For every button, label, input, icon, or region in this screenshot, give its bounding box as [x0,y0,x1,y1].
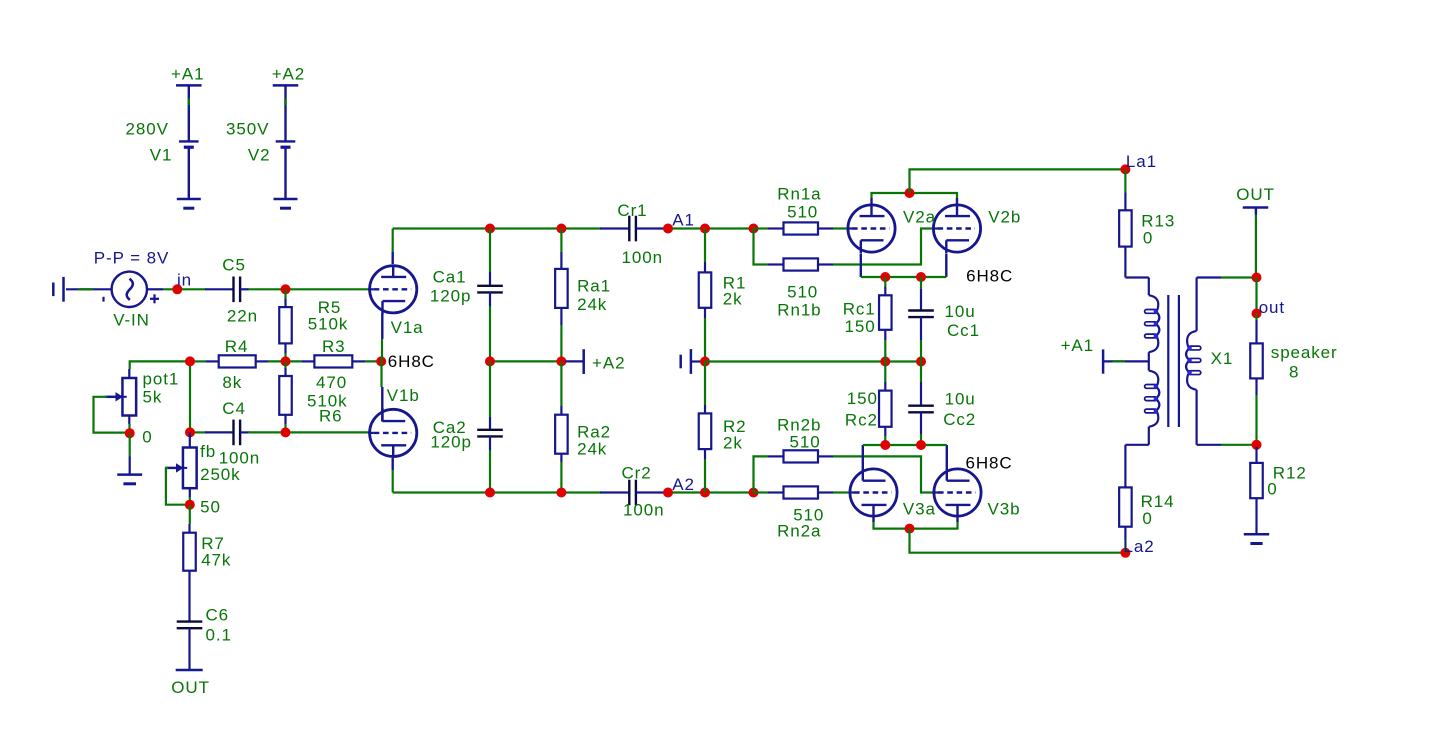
V3b plate lead [956,517,958,522]
triode V2a [846,204,895,254]
V2a plate lead [870,198,872,204]
svg-text:8: 8 [1289,362,1299,381]
source V-IN circle [112,272,147,307]
wire Ca2 to bottom rail [489,450,491,493]
wire A1 to R1 [704,229,706,263]
resistor R6 [279,368,292,424]
svg-text:V3a: V3a [903,500,936,519]
V1b plate lead down [392,458,394,470]
wire 0 to ground [129,433,131,456]
wire Cc2 to cath rail [920,434,922,445]
wire Rn2 junction to Rn2a [754,491,769,493]
pot1 top lead [128,369,130,378]
wire V2 plates join [872,193,958,198]
wire V3 plates join [874,522,958,529]
wire pot1 wiper [94,397,128,433]
capacitor Cc2 [908,382,934,434]
junction Cc1 top [916,272,926,282]
capacitor Ca1 [477,272,503,306]
terminal OUT top [1243,206,1269,209]
resistor R14 [1119,487,1132,540]
triode V1b [368,408,417,458]
wire mid row R4 run [190,360,206,362]
svg-text:La2: La2 [1124,537,1155,556]
wire secondary top [1195,278,1197,331]
wire Cc1 top stub [920,277,922,289]
svg-text:6H8C: 6H8C [966,454,1013,473]
wire Cc2 from mid [920,362,922,383]
wire Ca1 column top [489,229,491,273]
wire Rn1b to V2b grid [833,229,932,265]
svg-text:+A1: +A1 [171,65,204,84]
svg-text:Cr2: Cr2 [622,464,652,483]
ground terminal mid [681,349,691,374]
svg-text:speaker: speaker [1271,343,1338,362]
capacitor Ca2 [477,417,503,450]
svg-text:R3: R3 [322,337,346,356]
wire source to in node [147,288,163,290]
junction A2 [663,488,673,498]
svg-text:V1a: V1a [391,318,424,337]
resistor R4 [206,355,268,367]
wire Rc1 top stub [884,277,886,287]
resistor Rn2a [768,486,833,498]
svg-text:24k: 24k [577,440,607,459]
junction sec top [1252,273,1262,283]
ground under R12 [1244,498,1269,543]
svg-text:2k: 2k [723,433,743,452]
V2b cathode lead down [945,254,947,277]
junction C5/R5 [281,284,291,294]
wire OUT to out node [1255,215,1257,278]
triode V1a [368,265,417,315]
wire node to R5 [284,289,286,299]
svg-text:P-P = 8V: P-P = 8V [94,249,169,268]
capacitor Cr1 [600,216,667,242]
terminal OUT bottom [176,669,203,672]
potentiometer pot1 [105,378,136,416]
svg-text:50: 50 [200,498,221,517]
wire Rc1 to mid [884,340,886,362]
svg-text:+A2: +A2 [272,65,305,84]
input terminal [53,277,63,302]
svg-text:V3b: V3b [988,500,1021,519]
svg-text:R4: R4 [225,337,249,356]
resistor Rn1a [768,222,833,234]
junction R4/R5/R6 [281,356,291,366]
wire R4 to node [268,360,302,362]
triode V2b [932,204,981,254]
triode V3a [848,468,897,518]
svg-text:22n: 22n [227,306,258,325]
wire Rn2 junction up [754,456,769,492]
junction Rc1 mid [880,357,890,367]
capacitor Cr2 [600,480,667,506]
svg-text:0: 0 [1143,229,1153,248]
junction R4 left [185,356,195,366]
ground under V1 [177,199,201,208]
resistor R1 [699,262,712,318]
capacitor Cc1 [908,289,934,340]
resistor Ra1 [555,252,568,325]
junction Cc2 bottom [916,440,926,450]
wire Cr2 to A2 [666,491,754,493]
wire fb wiper [166,468,187,505]
wire Rc2 from mid [884,362,886,383]
wire Rc2 to cath rail [884,436,886,445]
svg-text:120p: 120p [430,286,471,305]
svg-text:280V: 280V [126,119,169,138]
V2a cathode lead down [860,254,862,277]
wire Rn2a to V3a grid [833,491,848,493]
wire V2 cathode rail [861,276,947,278]
junction sec bottom [1252,440,1262,450]
ground under V2 [274,199,298,208]
terminal +A2 top [273,84,299,87]
wire speaker to bottom node [1255,395,1257,445]
V3b cathode lead up [946,445,948,468]
wire sec bottom to node [1221,444,1257,446]
svg-text:Ra1: Ra1 [577,277,611,296]
wire V1b plate to bottom rail [392,470,394,493]
svg-text:24k: 24k [577,295,607,314]
junction node 0 [125,428,135,438]
svg-text:0.1: 0.1 [206,625,232,644]
transformer X1 secondary [1186,331,1201,390]
wire fb to 50 [189,497,191,505]
resistor R2 [699,405,712,459]
resistor Rn2b [768,450,833,462]
wire V1a cathode down [381,339,383,361]
wire sec top to node [1221,276,1257,278]
svg-text:V1: V1 [150,145,173,164]
svg-text:510: 510 [790,433,821,452]
svg-text:Rn2a: Rn2a [777,522,821,541]
svg-text:V1b: V1b [387,386,420,405]
potentiometer fb 250k [166,448,197,489]
wire gnd rail right [705,360,921,362]
svg-text:C4: C4 [222,399,246,418]
wire Ra2 column top [560,361,562,406]
svg-text:Rc2: Rc2 [845,411,878,430]
wire R5 to mid node [284,353,286,361]
terminal +A2 mid [582,349,585,374]
junction Ra1 top [556,224,566,234]
resistor Rn1b [768,258,833,270]
svg-text:Rn1a: Rn1a [777,185,821,204]
pot1 bottom lead [128,416,130,425]
terminal +A1 [176,84,202,87]
wire 50 to R7 [189,505,191,524]
wire R13 to primary [1124,258,1126,278]
capacitor C6 [177,575,203,670]
wire V3 plates to La2 [910,529,1126,553]
svg-text:0: 0 [1267,479,1277,498]
svg-text:Cc2: Cc2 [943,410,976,429]
V2b plate lead [956,198,958,204]
junction Rn top [749,224,759,234]
capacitor C5 [205,277,249,303]
svg-text:A2: A2 [672,475,695,494]
resistor Ra2 [555,406,568,462]
wire V1a plate to top rail [392,229,394,253]
V1b cathode lead [381,387,383,422]
junction node 50 [185,500,195,510]
svg-text:47k: 47k [201,550,231,569]
wire Rn junction to Rn1a [754,227,769,229]
wire R3 to 6H8C node [365,360,381,362]
svg-text:V2b: V2b [988,208,1021,227]
junction V3 plates [905,524,915,534]
V3a cathode lead up [862,445,864,468]
svg-text:C5: C5 [222,255,246,274]
resistor speaker [1250,320,1263,395]
wire bottom rail [393,491,601,493]
wire mid to R6 [284,361,286,368]
triode V3b [932,468,981,518]
resistor Rc2 [879,382,892,436]
svg-text:pot1: pot1 [143,369,180,388]
fb pot top lead [189,432,191,447]
svg-text:Ca1: Ca1 [433,267,467,286]
junction 6H8C node [376,356,386,366]
resistor R3 [302,355,365,367]
svg-text:120p: 120p [430,433,471,452]
svg-text:V-IN: V-IN [113,310,150,329]
svg-text:470: 470 [316,373,347,392]
resistor R5 [279,299,292,353]
capacitor C4 [205,420,249,446]
junction C4/R6 [281,427,291,437]
svg-text:6H8C: 6H8C [388,352,435,371]
wire pot1 bottom to 0 [128,424,130,433]
wire node to pot1 top [130,361,190,369]
svg-text:+A1: +A1 [1061,336,1094,355]
wire input to source [66,288,112,290]
minus mark [102,297,104,302]
wire R1 to gnd node [704,318,706,362]
junction Ca2 bottom [485,488,495,498]
junction R2 bottom [700,488,710,498]
fb pot bottom lead [189,488,191,497]
wire Rn1a to V2a grid [833,227,846,229]
svg-text:+A2: +A2 [592,354,625,373]
junction out [1252,309,1262,319]
wire term to node [692,360,705,362]
wire Ra1 to mid [560,325,562,361]
transformer X1 core [1167,295,1169,427]
svg-text:C6: C6 [206,606,230,625]
wire Ra1 column top [560,229,562,253]
wire V2 plates to La1 [910,169,1126,193]
wire Ra2 to bottom rail [560,462,562,493]
svg-text:OUT: OUT [171,678,210,697]
svg-text:2k: 2k [723,289,743,308]
wire center tap [1103,360,1149,362]
wire V3 cathode rail [863,444,947,446]
junction Ca1 top [485,224,495,234]
wire Rn junction down [754,229,769,265]
svg-text:OUT: OUT [1236,185,1275,204]
wire node to C4 [190,431,206,433]
junction C4 left [185,427,195,437]
transformer X1 primary lower [1145,371,1160,427]
wire Ca2 column top [489,361,491,417]
junction R1 top [700,224,710,234]
svg-text:510: 510 [787,283,818,302]
wire mid rail left [490,360,566,362]
junction La2 [1120,548,1130,558]
svg-text:V2a: V2a [903,208,936,227]
svg-text:150: 150 [845,317,876,336]
wire to +A2 terminal [565,360,584,362]
battery V1 [179,85,199,199]
wire node to out [1255,278,1257,314]
svg-text:8k: 8k [222,373,242,392]
wire Ca1 to mid [489,306,491,361]
transformer X1 primary upper [1145,295,1160,352]
svg-text:Rn1b: Rn1b [777,301,821,320]
wire Cr1 to A1 [666,227,754,229]
resistor R12 [1250,447,1263,498]
svg-text:V2: V2 [248,145,271,164]
junction Ra1 mid [556,356,566,366]
wire C5 to V1a grid [248,288,370,290]
junction V2 plates [905,188,915,198]
svg-text:350V: 350V [226,119,269,138]
wire Rn2b to V3b grid [833,456,934,492]
wire R6 to C4 row [284,424,286,432]
svg-text:510: 510 [787,203,818,222]
svg-text:out: out [1259,298,1285,317]
wire top rail [393,227,601,229]
svg-text:100n: 100n [623,501,664,520]
svg-text:R6: R6 [319,407,343,426]
junction Rc1 top [880,272,890,282]
svg-text:0: 0 [1142,509,1152,528]
wire C4 to V1b grid [248,431,370,433]
svg-text:10u: 10u [945,302,976,321]
wire La1 down [1124,169,1126,192]
wire out to speaker [1255,314,1257,321]
junction Cc1 mid [916,357,926,367]
resistor R7 [183,524,196,575]
junction Rc2 bottom [880,440,890,450]
wire primary bottom [1148,427,1150,445]
svg-text:Rc1: Rc1 [843,299,876,318]
wire secondary bottom [1195,390,1197,445]
V3a plate lead [872,517,874,522]
resistor R13 [1119,193,1132,259]
plus mark [150,298,159,300]
OUT terminal stub [1255,208,1257,215]
svg-text:Ra2: Ra2 [577,422,611,441]
wire column node link [189,361,191,432]
svg-text:250k: 250k [200,465,240,484]
wire R14 to La2 [1124,540,1126,553]
svg-text:Cc1: Cc1 [947,321,980,340]
svg-text:100n: 100n [622,248,663,267]
svg-text:5k: 5k [143,388,163,407]
svg-text:6H8C: 6H8C [966,267,1013,286]
svg-text:0: 0 [142,428,152,447]
svg-text:150: 150 [847,389,878,408]
X1 center tap bar [1102,349,1105,373]
svg-text:R12: R12 [1273,463,1307,482]
battery V2 [276,85,296,199]
junction gnd node [700,357,710,367]
wire in node to C5 [163,288,206,290]
junction Ra2 bottom [556,488,566,498]
V1a plate lead up [392,252,394,264]
svg-text:X1: X1 [1211,349,1234,368]
junction Rn2 junction [749,488,759,498]
svg-text:La1: La1 [1126,152,1157,171]
junction Ca1 mid [485,356,495,366]
svg-text:10u: 10u [945,390,976,409]
svg-text:Cr1: Cr1 [617,201,647,220]
ground under pot1 [117,456,142,484]
svg-text:fb: fb [200,442,216,461]
wire Cc1 to mid [920,340,922,362]
V1a cathode lead ext [381,313,383,339]
wire gnd node to R2 [704,362,706,406]
junction in [172,284,182,294]
resistor Rc1 [879,287,892,340]
junction La1 [1120,164,1130,174]
svg-text:510k: 510k [308,315,348,334]
wire R2 to A2 rail [704,459,706,493]
wire 6H8C node to V1b cathode [380,361,382,387]
svg-text:A1: A1 [672,210,695,229]
svg-text:in: in [177,271,192,290]
junction A1 [663,224,673,234]
